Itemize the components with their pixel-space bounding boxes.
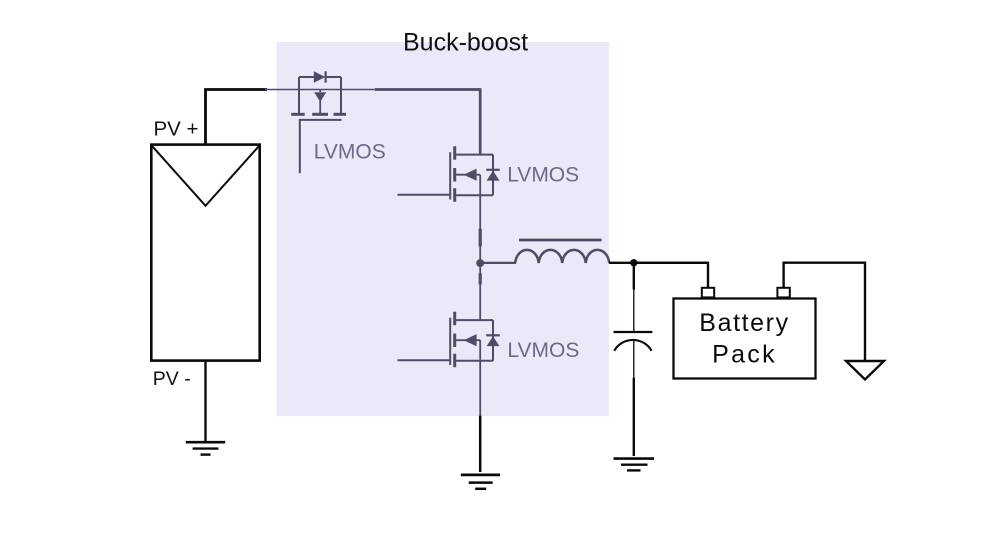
wire Q2 source to junction — [479, 195, 481, 263]
svg-text:Pack: Pack — [712, 341, 777, 369]
svg-text:Battery: Battery — [699, 309, 789, 337]
ground (Q3) — [461, 475, 500, 489]
buck-boost shaded region — [277, 42, 610, 416]
inductor L core bar — [519, 239, 602, 242]
wire Q3 source to ground (gray inside region) — [479, 361, 481, 416]
connector nub above junction — [479, 229, 482, 247]
wire junction to inductor — [480, 262, 516, 264]
transistor Q2 (upper vertical MOSFET) — [398, 146, 500, 202]
wire capacitor to ground — [633, 340, 635, 378]
inductor L windings — [515, 250, 609, 263]
wire node to battery left terminal — [634, 263, 708, 288]
ground (PV) — [186, 442, 225, 454]
wire PV- down to ground — [204, 361, 206, 441]
battery right terminal — [777, 288, 789, 298]
svg-text:LVMOS: LVMOS — [507, 339, 579, 362]
capacitor C (polarized) — [614, 332, 653, 351]
wire into Q1 (thin, inside region) — [265, 89, 299, 91]
ground arrow (open triangle) — [846, 361, 884, 380]
node junction (switch node) — [476, 259, 484, 267]
PV panel — [151, 145, 259, 361]
wire PV+ up and right to Q1 — [206, 90, 268, 145]
svg-text:Buck-boost: Buck-boost — [403, 29, 528, 57]
ground (capacitor) — [614, 459, 655, 471]
node battery/cap junction — [630, 259, 637, 266]
transistor Q3 (lower vertical MOSFET) — [398, 312, 500, 368]
wire battery right terminal to ground arrow — [784, 263, 865, 360]
wire node down to capacitor — [633, 263, 635, 290]
transistor Q1 (horizontal MOSFET with body diode) — [291, 71, 346, 173]
wire top node to Q2 drain — [375, 90, 480, 155]
svg-text:LVMOS: LVMOS — [314, 140, 386, 163]
wire Q1 to top node (thin then thick) — [341, 89, 376, 91]
battery left terminal — [702, 288, 714, 298]
wire Q3 source to ground (black outside region) — [479, 416, 482, 472]
battery pack box — [674, 299, 816, 379]
wire junction down to Q3 drain — [479, 263, 481, 320]
svg-text:PV -: PV - — [153, 368, 191, 390]
wire inductor to battery node (black) — [609, 262, 708, 264]
svg-text:LVMOS: LVMOS — [507, 163, 579, 186]
svg-text:PV +: PV + — [154, 118, 199, 141]
connector nub below junction — [479, 273, 482, 284]
